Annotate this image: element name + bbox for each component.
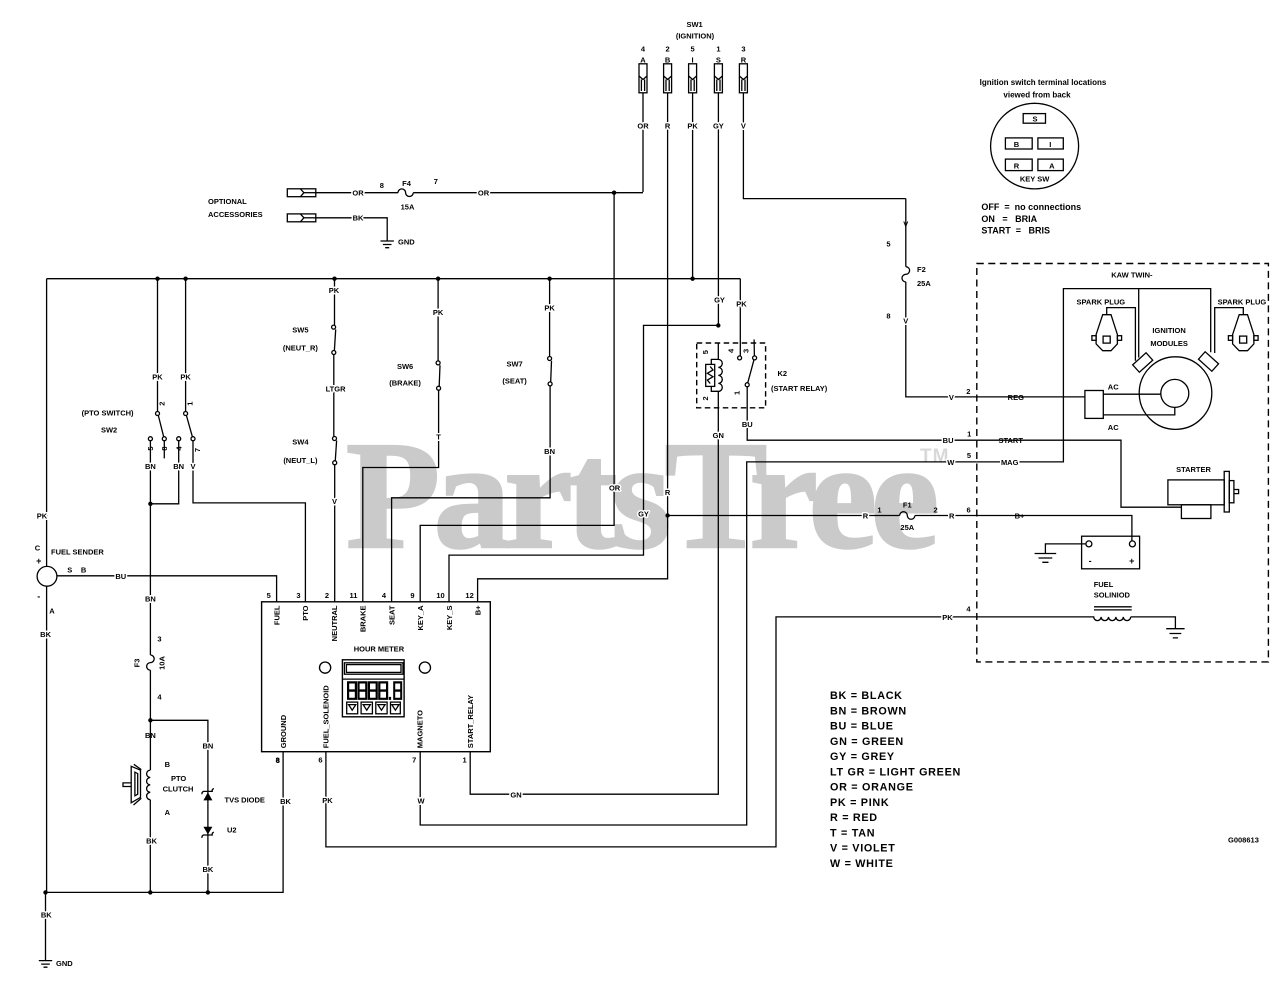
terminal A box <box>1038 159 1063 171</box>
svg-text:2: 2 <box>158 402 167 406</box>
svg-text:1: 1 <box>463 756 467 765</box>
svg-text:PK: PK <box>736 300 747 309</box>
svg-text:BK: BK <box>41 911 52 920</box>
svg-text:(BRAKE): (BRAKE) <box>389 379 421 388</box>
wire R junction to module B+ pin <box>478 516 668 602</box>
svg-text:SW4: SW4 <box>292 437 309 446</box>
svg-text:V = VIOLET: V = VIOLET <box>830 843 896 855</box>
svg-text:GND: GND <box>56 959 73 968</box>
engine KAW TWIN dashed box <box>977 264 1269 662</box>
PTO clutch armature <box>123 764 141 805</box>
wire PK top bus <box>47 278 741 280</box>
svg-text:BN: BN <box>145 595 156 604</box>
connector SW1-B <box>664 64 672 93</box>
svg-text:PTO: PTO <box>171 774 186 783</box>
switch SW2 pole B <box>177 412 195 441</box>
wire ignition module left drop <box>1138 289 1140 358</box>
hour meter bezel <box>342 660 404 717</box>
svg-text:1: 1 <box>877 506 881 515</box>
wire PK bus to SW6 <box>437 279 439 361</box>
svg-text:5: 5 <box>701 350 710 354</box>
svg-text:12: 12 <box>465 591 473 600</box>
svg-text:B+: B+ <box>473 605 482 615</box>
svg-text:2: 2 <box>966 387 970 396</box>
node bus junctions <box>155 277 159 281</box>
wire GY branch to KEY_S pin <box>449 325 718 601</box>
svg-text:PK: PK <box>942 613 953 622</box>
svg-text:PK: PK <box>37 511 48 520</box>
node R junction <box>665 513 669 517</box>
svg-text:GND: GND <box>398 238 415 247</box>
wire BN junction down to fuse F3 <box>149 504 151 655</box>
svg-text:K2: K2 <box>778 369 788 378</box>
wire BU K2 to KAW START <box>747 387 977 441</box>
svg-text:PTO: PTO <box>301 605 310 620</box>
fuse F2 25A <box>902 267 910 282</box>
wire START to starter <box>977 440 1182 507</box>
node OR junction <box>612 191 616 195</box>
svg-text:OR: OR <box>637 122 649 131</box>
fuse F4 15A <box>398 189 413 197</box>
wire REG to regulator <box>977 396 1085 398</box>
wire BN SW7 to SEAT pin <box>392 386 550 602</box>
wire OR accessory to F4 to OR junction <box>316 192 398 194</box>
svg-text:BK: BK <box>40 630 51 639</box>
svg-text:BN: BN <box>145 462 156 471</box>
svg-text:3: 3 <box>741 45 745 54</box>
svg-text:(SEAT): (SEAT) <box>502 377 527 386</box>
svg-text:STARTER: STARTER <box>1176 465 1211 474</box>
svg-text:5: 5 <box>691 45 695 54</box>
svg-text:R: R <box>949 512 955 521</box>
relay K2 dashed box <box>697 343 766 408</box>
svg-text:ON = BRIA: ON = BRIA <box>981 214 1037 224</box>
svg-text:SW5: SW5 <box>292 326 308 335</box>
connector optional accessory 2 <box>287 214 316 222</box>
svg-text:R: R <box>665 488 671 497</box>
svg-text:SW6: SW6 <box>397 362 413 371</box>
svg-text:FUEL: FUEL <box>1094 580 1114 589</box>
svg-text:OFF = no connections: OFF = no connections <box>981 202 1081 212</box>
terminal B box <box>1005 138 1032 149</box>
svg-text:KEY SW: KEY SW <box>1020 175 1050 184</box>
wire OR junction to KEY_A pin <box>420 193 614 602</box>
svg-text:SPARK PLUG: SPARK PLUG <box>1076 297 1125 306</box>
svg-text:7: 7 <box>193 448 202 452</box>
wire AC top to flywheel <box>1103 393 1161 395</box>
svg-text:+: + <box>36 556 41 566</box>
svg-text:F2: F2 <box>917 265 926 274</box>
svg-text:7: 7 <box>412 756 416 765</box>
node bottom bus junctions <box>43 890 47 894</box>
svg-text:CLUTCH: CLUTCH <box>163 785 194 794</box>
svg-text:15A: 15A <box>401 203 415 212</box>
svg-text:6: 6 <box>318 756 322 765</box>
connector optional accessory 1 <box>287 189 316 197</box>
svg-text:V: V <box>741 122 746 131</box>
svg-text:W: W <box>947 458 955 467</box>
svg-text:C: C <box>35 544 41 553</box>
fuel sender FS1 <box>37 566 57 586</box>
svg-text:5: 5 <box>967 451 971 460</box>
svg-text:-: - <box>1089 556 1092 566</box>
svg-text:MODULES: MODULES <box>1150 339 1188 348</box>
wire OR from connector A down to OR junction <box>642 93 644 192</box>
svg-text:KEY_S: KEY_S <box>445 606 454 631</box>
svg-text:BK = BLACK: BK = BLACK <box>830 690 903 702</box>
svg-text:MAGNETO: MAGNETO <box>416 710 425 748</box>
svg-text:OR: OR <box>352 189 364 198</box>
svg-text:BK: BK <box>353 214 364 223</box>
svg-text:B: B <box>165 760 171 769</box>
terminal R box <box>1005 159 1032 171</box>
wire solenoid to ground <box>1131 617 1176 629</box>
svg-text:3: 3 <box>741 349 750 353</box>
svg-text:3: 3 <box>296 591 300 600</box>
svg-text:MAG: MAG <box>1001 458 1019 467</box>
svg-text:8: 8 <box>160 446 169 450</box>
svg-text:G008613: G008613 <box>1228 836 1259 845</box>
wire PK bus corner down to relay K2 <box>739 279 741 356</box>
svg-text:5: 5 <box>886 239 890 248</box>
switch SW5 neutral R <box>332 325 336 354</box>
svg-text:FUEL SENDER: FUEL SENDER <box>51 547 104 556</box>
fuel solenoid core bars <box>1094 607 1132 610</box>
svg-text:SOLINIOD: SOLINIOD <box>1094 591 1131 600</box>
fuse F3 10A <box>147 655 155 670</box>
wire BN from SW2 pin 5 to junction <box>149 441 151 504</box>
svg-text:A: A <box>640 56 646 65</box>
ground battery <box>1035 554 1057 563</box>
svg-text:SEAT: SEAT <box>387 605 396 625</box>
svg-text:KAW TWIN-: KAW TWIN- <box>1111 270 1153 279</box>
spark plug right <box>1228 315 1258 351</box>
node GY junction <box>716 323 720 327</box>
svg-text:V: V <box>332 497 337 506</box>
connector SW1-S <box>714 64 722 93</box>
svg-text:PK: PK <box>544 303 555 312</box>
wire W KAW MAG to module MAGNETO <box>420 462 977 825</box>
svg-text:BRAKE: BRAKE <box>359 606 368 633</box>
svg-text:+: + <box>1129 556 1134 566</box>
svg-text:(START RELAY): (START RELAY) <box>771 384 828 393</box>
wire PK module FUEL_SOLENOID to KAW fuel solenoid <box>326 617 977 847</box>
svg-text:GROUND: GROUND <box>279 714 288 748</box>
regulator box <box>1085 391 1103 419</box>
svg-text:PK = PINK: PK = PINK <box>830 797 889 809</box>
svg-text:2: 2 <box>325 591 329 600</box>
node BN junction 2 <box>148 718 152 722</box>
terminal I box <box>1038 138 1063 149</box>
svg-text:TVS DIODE: TVS DIODE <box>225 796 265 805</box>
svg-text:HOUR METER: HOUR METER <box>354 644 405 653</box>
hour meter digits 8888.8 <box>347 681 402 700</box>
svg-text:25A: 25A <box>917 279 931 288</box>
svg-text:IGNITION: IGNITION <box>1152 326 1185 335</box>
wire GN K2 coil to module START_RELAY <box>470 408 718 794</box>
ignition module left <box>1133 353 1153 372</box>
svg-text:PK: PK <box>687 122 698 131</box>
wire PK from connector I down to PK bus <box>692 93 694 279</box>
switch SW2 pole A <box>148 412 166 459</box>
fuse F1 25A <box>900 512 915 520</box>
svg-text:7: 7 <box>434 177 438 186</box>
wire BK accessory to ground <box>316 218 387 241</box>
svg-text:V: V <box>949 393 954 402</box>
svg-text:8: 8 <box>886 312 890 321</box>
svg-text:5: 5 <box>267 591 271 600</box>
svg-text:START = BRIS: START = BRIS <box>981 226 1050 236</box>
svg-text:I: I <box>1049 140 1051 149</box>
svg-text:Ignition switch terminal locat: Ignition switch terminal locations <box>980 78 1107 87</box>
svg-text:R: R <box>1014 161 1020 170</box>
wire GY from connector S down to GY junction <box>717 93 719 326</box>
legend wire colors <box>830 690 961 870</box>
svg-text:S: S <box>1032 115 1037 124</box>
svg-text:BK: BK <box>280 797 291 806</box>
svg-text:F1: F1 <box>903 500 912 509</box>
svg-text:BU = BLUE: BU = BLUE <box>830 721 894 733</box>
svg-text:R: R <box>741 56 747 65</box>
wire AC bottom to flywheel <box>1103 408 1175 415</box>
svg-text:(PTO SWITCH): (PTO SWITCH) <box>82 409 134 418</box>
TVS diode lower zener U2 <box>203 827 212 835</box>
wire BN from SW2 pin 4 joining junction <box>150 441 178 504</box>
svg-text:6: 6 <box>967 506 971 515</box>
svg-text:GN: GN <box>713 431 724 440</box>
svg-text:R = RED: R = RED <box>830 812 878 824</box>
svg-text:1: 1 <box>716 45 720 54</box>
svg-text:FUEL: FUEL <box>272 605 281 625</box>
wire BK clutch to bottom bus <box>149 800 151 893</box>
svg-text:2: 2 <box>666 45 670 54</box>
svg-text:A: A <box>49 606 55 615</box>
svg-text:OR: OR <box>478 189 490 198</box>
svg-text:S: S <box>67 566 72 575</box>
spark plug right wire <box>1215 308 1244 353</box>
relay K2 contact <box>738 340 757 387</box>
flywheel hub <box>1161 379 1189 407</box>
svg-text:A: A <box>165 808 171 817</box>
svg-text:B: B <box>665 56 671 65</box>
svg-text:R: R <box>665 122 671 131</box>
svg-text:W: W <box>418 797 426 806</box>
hour meter LED left <box>320 662 331 673</box>
wire V from connector R down then right to F2 <box>743 93 905 199</box>
svg-text:U2: U2 <box>227 825 237 834</box>
wire BK bottom bus <box>46 752 284 893</box>
svg-text:1: 1 <box>185 402 194 406</box>
TVS diode upper zener <box>203 792 212 800</box>
ground main GND <box>39 961 52 968</box>
module U1 controller box <box>262 602 491 752</box>
wire BN branch to TVS diode <box>150 720 208 892</box>
svg-text:BK: BK <box>146 837 157 846</box>
wire T SW6 to BRAKE pin <box>363 390 439 602</box>
spark plug left <box>1092 315 1122 351</box>
wire left rail PK down to fuel sender <box>46 279 48 567</box>
svg-text:2: 2 <box>934 506 938 515</box>
svg-text:BU: BU <box>742 420 753 429</box>
switch SW7 seat <box>548 357 553 386</box>
wire BK to main ground <box>45 892 47 960</box>
svg-text:B: B <box>81 566 87 575</box>
svg-text:TM: TM <box>920 446 949 467</box>
svg-text:8: 8 <box>380 181 384 190</box>
key switch circle <box>991 103 1079 189</box>
svg-text:AC: AC <box>1108 383 1119 392</box>
svg-text:11: 11 <box>350 591 358 600</box>
connector SW1-I <box>689 64 697 93</box>
svg-text:T = TAN: T = TAN <box>830 827 875 839</box>
svg-text:OR = ORANGE: OR = ORANGE <box>830 782 914 794</box>
svg-text:LTGR: LTGR <box>326 384 346 393</box>
label MAG riser wire <box>977 289 1211 462</box>
svg-text:10: 10 <box>436 591 444 600</box>
spark plug left wire <box>1107 308 1136 361</box>
hour meter buttons <box>347 702 401 714</box>
svg-text:SPARK PLUG: SPARK PLUG <box>1218 297 1267 306</box>
hour meter divider <box>342 678 404 680</box>
svg-text:START_RELAY: START_RELAY <box>466 695 475 748</box>
svg-text:A: A <box>1049 161 1055 170</box>
svg-text:9: 9 <box>410 591 414 600</box>
flywheel <box>1139 357 1212 430</box>
svg-text:BN: BN <box>173 462 184 471</box>
svg-text:T: T <box>436 432 441 441</box>
ground fuel solenoid <box>1166 629 1184 638</box>
wire BN fuse to junction <box>149 670 151 720</box>
svg-text:25A: 25A <box>900 523 914 532</box>
svg-text:PK: PK <box>329 286 340 295</box>
wire battery negative to ground <box>1045 544 1086 554</box>
wire PK bus to SW2 pole A <box>157 279 159 412</box>
svg-text:LT GR = LIGHT GREEN: LT GR = LIGHT GREEN <box>830 766 961 778</box>
wire V to fuse F2 <box>905 199 907 267</box>
svg-text:GN: GN <box>510 790 521 799</box>
ground accessory <box>381 241 394 248</box>
svg-text:-: - <box>37 592 40 602</box>
terminal S box <box>1023 114 1045 124</box>
wire BK fuel sender down to bottom bus <box>46 586 48 892</box>
hour meter window <box>344 663 403 674</box>
switch SW4 neutral L <box>333 437 337 465</box>
svg-text:BK: BK <box>202 865 213 874</box>
wire B+ to battery <box>977 516 1132 542</box>
svg-text:1: 1 <box>733 391 742 395</box>
svg-text:BN = BROWN: BN = BROWN <box>830 705 907 717</box>
svg-text:W = WHITE: W = WHITE <box>830 858 894 870</box>
PTO clutch coil <box>147 770 151 800</box>
wire V SW4 to NEUTRAL pin <box>334 465 336 602</box>
wire PK bus to SW2 pole B <box>185 279 187 412</box>
wire R from connector B down to R junction <box>667 93 669 516</box>
svg-text:GY: GY <box>714 295 725 304</box>
svg-text:PK: PK <box>152 373 163 382</box>
svg-text:3: 3 <box>157 635 161 644</box>
svg-text:B: B <box>1014 140 1020 149</box>
svg-text:SW7: SW7 <box>506 360 522 369</box>
node BN junction <box>148 502 152 506</box>
svg-text:10A: 10A <box>158 656 167 670</box>
svg-text:(NEUT_R): (NEUT_R) <box>283 344 319 353</box>
wire LTGR chain bus to NEUTRAL pin <box>334 279 336 325</box>
svg-text:GY = GREY: GY = GREY <box>830 751 895 763</box>
wire R to fuse F1 <box>668 515 900 517</box>
fuel solenoid coil <box>977 617 1131 621</box>
svg-text:V: V <box>903 316 908 325</box>
svg-text:F4: F4 <box>402 179 412 188</box>
wire R fuse to KAW B+ <box>915 515 977 517</box>
svg-text:viewed from back: viewed from back <box>1003 91 1071 100</box>
svg-text:BU: BU <box>943 436 954 445</box>
connector SW1-R <box>739 64 747 93</box>
svg-text:AC: AC <box>1108 423 1119 432</box>
svg-text:BU: BU <box>115 572 126 581</box>
svg-text:OR: OR <box>609 484 621 493</box>
svg-text:8: 8 <box>276 756 280 765</box>
svg-text:GY: GY <box>713 122 724 131</box>
svg-text:BN: BN <box>202 741 213 750</box>
svg-text:1: 1 <box>967 430 971 439</box>
svg-text:KEY_A: KEY_A <box>416 605 425 631</box>
svg-text:BN: BN <box>544 447 555 456</box>
switch SW6 brake <box>436 361 441 390</box>
ignition module right <box>1198 352 1218 371</box>
svg-text:V: V <box>190 462 195 471</box>
wire V fuse to KAW REG <box>906 282 977 397</box>
svg-text:2: 2 <box>701 396 710 400</box>
connector SW1-A <box>639 64 647 93</box>
svg-text:PK: PK <box>322 796 333 805</box>
svg-text:I: I <box>692 56 694 65</box>
svg-text:PK: PK <box>433 308 444 317</box>
svg-text:ACCESSORIES: ACCESSORIES <box>208 210 263 219</box>
relay K2 coil <box>718 343 722 408</box>
hour meter LED right <box>419 662 430 673</box>
svg-text:S: S <box>716 56 721 65</box>
svg-text:(IGNITION): (IGNITION) <box>676 32 715 41</box>
wire BU fuel sender to module FUEL pin <box>57 576 277 602</box>
svg-text:NEUTRAL: NEUTRAL <box>330 605 339 641</box>
svg-text:PK: PK <box>180 373 191 382</box>
svg-text:GY: GY <box>638 510 649 519</box>
svg-text:FUEL_SOLENOID: FUEL_SOLENOID <box>322 685 331 749</box>
starter motor <box>1168 471 1239 518</box>
svg-text:OPTIONAL: OPTIONAL <box>208 197 247 206</box>
svg-text:(NEUT_L): (NEUT_L) <box>283 456 318 465</box>
battery <box>1082 536 1140 569</box>
wire BN junction down to PTO clutch <box>149 720 151 770</box>
wire V from SW2 pin 7 to module PTO pin <box>193 441 305 602</box>
wire PK bus to SW7 <box>549 279 551 357</box>
svg-text:SW1: SW1 <box>686 20 702 29</box>
svg-text:F3: F3 <box>133 659 142 668</box>
svg-text:SW2: SW2 <box>101 426 117 435</box>
svg-text:R: R <box>863 512 869 521</box>
svg-text:GN = GREEN: GN = GREEN <box>830 736 904 748</box>
